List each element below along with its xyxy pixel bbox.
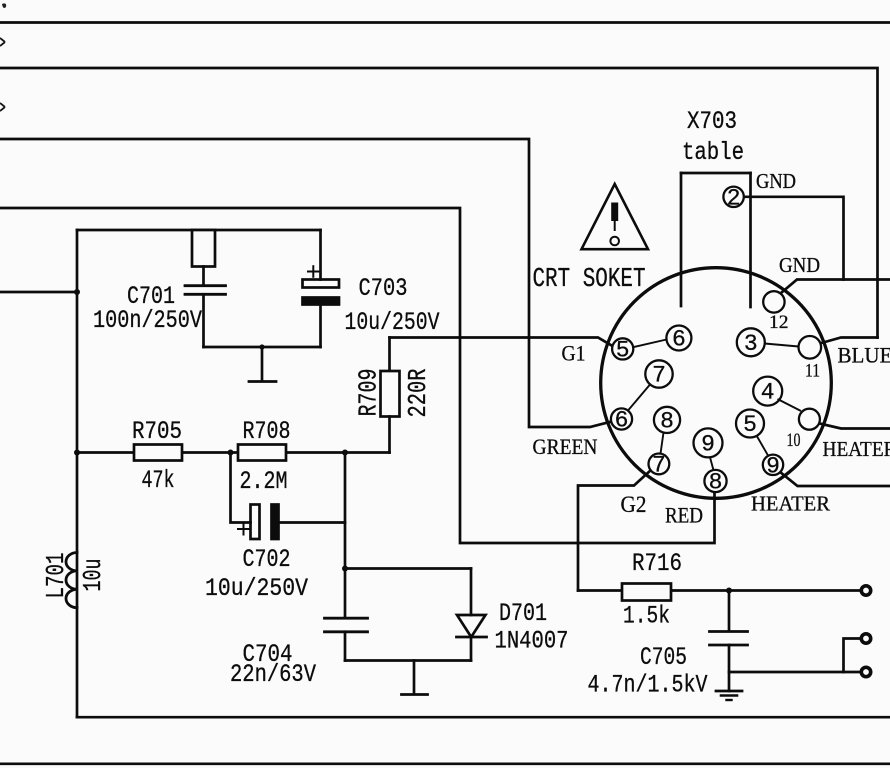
svg-text:7: 7 <box>652 452 666 478</box>
svg-text:D701: D701 <box>499 599 547 628</box>
svg-text:3: 3 <box>744 331 758 357</box>
svg-text:9: 9 <box>701 431 715 457</box>
svg-text:2.2M: 2.2M <box>240 467 288 496</box>
svg-text:HEATER: HEATER <box>823 437 890 461</box>
svg-text:C702: C702 <box>243 545 291 574</box>
svg-text:8: 8 <box>660 408 674 434</box>
svg-text:X703: X703 <box>687 107 737 136</box>
svg-text:1.5k: 1.5k <box>623 602 670 631</box>
svg-text:5: 5 <box>616 337 630 363</box>
svg-text:GND: GND <box>756 169 796 193</box>
svg-text:RED: RED <box>665 503 703 528</box>
svg-text:8: 8 <box>709 470 723 496</box>
svg-text:R708: R708 <box>243 417 291 446</box>
svg-text:10u: 10u <box>78 559 108 592</box>
svg-text:5: 5 <box>743 412 757 438</box>
svg-text:4.7n/1.5kV: 4.7n/1.5kV <box>588 671 708 700</box>
svg-text:6: 6 <box>672 327 686 353</box>
svg-text:10u/250V: 10u/250V <box>205 574 308 603</box>
svg-text:CRT SOKET: CRT SOKET <box>533 265 646 295</box>
svg-text:HEATER: HEATER <box>751 492 830 516</box>
svg-text:6: 6 <box>615 408 629 434</box>
svg-text:10: 10 <box>787 430 801 451</box>
svg-text:22n/63V: 22n/63V <box>230 660 316 689</box>
svg-text:C703: C703 <box>359 274 408 303</box>
svg-text:R709: R709 <box>354 369 384 417</box>
svg-text:L701: L701 <box>41 553 71 599</box>
svg-text:C705: C705 <box>640 643 687 672</box>
svg-text:9: 9 <box>766 453 780 479</box>
svg-text:GND: GND <box>779 253 820 277</box>
svg-text:2: 2 <box>727 185 741 211</box>
svg-text:GREEN: GREEN <box>533 434 598 459</box>
svg-text:G2: G2 <box>621 492 647 517</box>
svg-text:220R: 220R <box>403 369 433 418</box>
svg-text:R716: R716 <box>632 549 682 578</box>
svg-text:G1: G1 <box>562 341 586 366</box>
svg-text:1N4007: 1N4007 <box>495 627 569 656</box>
svg-text:10u/250V: 10u/250V <box>345 308 440 337</box>
svg-text:table: table <box>682 138 744 167</box>
svg-text:4: 4 <box>761 380 775 406</box>
svg-text:47k: 47k <box>142 466 175 495</box>
svg-text:100n/250V: 100n/250V <box>93 306 202 335</box>
svg-text:R705: R705 <box>132 417 182 446</box>
svg-text:7: 7 <box>652 363 666 389</box>
svg-text:12: 12 <box>769 312 789 333</box>
svg-text:BLUE: BLUE <box>838 343 890 368</box>
svg-text:11: 11 <box>805 360 820 381</box>
